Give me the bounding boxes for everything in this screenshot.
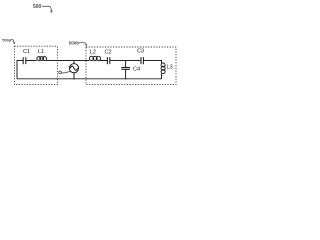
receiver dashed box 500b — [86, 47, 176, 85]
capacitor C2 — [107, 57, 109, 64]
wire: AC source node to L2 — [74, 60, 90, 62]
wire: L1 to AC source node — [46, 60, 74, 62]
svg-text:L1: L1 — [38, 49, 44, 55]
capacitor C4 — [121, 68, 130, 70]
capacitor C1 — [23, 57, 26, 64]
junction: C4 / top wire — [125, 60, 126, 61]
wire: L3 top stub — [161, 60, 163, 63]
svg-text:500: 500 — [33, 4, 42, 10]
inductor L1 — [37, 57, 47, 61]
capacitor C3 — [141, 57, 143, 64]
svg-text:C3: C3 — [137, 49, 144, 55]
inductor L2 — [89, 56, 100, 60]
transmitter dashed box 500a — [14, 46, 57, 84]
label arrow 506 to AC source — [59, 71, 70, 74]
svg-text:C2: C2 — [105, 49, 112, 55]
svg-text:C4: C4 — [133, 67, 140, 73]
wire: C1 to L1 — [26, 60, 37, 62]
svg-text:L3: L3 — [167, 65, 173, 71]
wire: C2 to C3 (C4 tap) — [110, 60, 141, 62]
AC source V1 — [69, 64, 78, 73]
svg-text:C1: C1 — [23, 49, 30, 55]
inductor L3 — [161, 63, 165, 74]
wire: AC source top stub — [73, 61, 75, 64]
wire: AC source bottom stub — [73, 73, 75, 79]
wire: C3 to L3 corner — [143, 60, 161, 62]
label 500b — [69, 41, 88, 47]
wire: C4 shunt top stub — [125, 61, 127, 68]
svg-text:500b: 500b — [69, 41, 80, 46]
junction: AC source / top wire — [73, 60, 74, 61]
wire: C4 shunt bottom stub — [125, 69, 127, 79]
junction: C4 / bottom rail — [125, 78, 126, 79]
wire: left vertical of loop — [16, 61, 18, 79]
junction: AC source / bottom rail — [73, 78, 74, 79]
wire: top, left end to C1 — [17, 60, 24, 62]
wire: L3 bottom stub — [161, 74, 163, 79]
svg-text:L2: L2 — [90, 49, 96, 55]
figure label 500 — [33, 4, 53, 13]
label 500a — [2, 38, 15, 45]
wire: bottom rail — [17, 78, 162, 80]
wire: L2 to C2 — [100, 60, 108, 62]
